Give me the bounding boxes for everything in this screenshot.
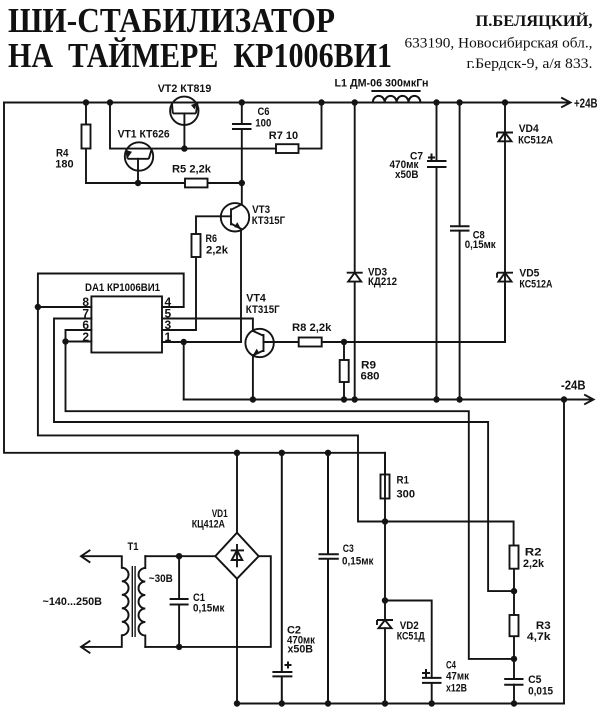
svg-text:х50В: х50В xyxy=(395,169,419,181)
svg-text:DA1 КР1006ВИ1: DA1 КР1006ВИ1 xyxy=(85,282,160,294)
svg-text:1: 1 xyxy=(165,330,172,344)
svg-text:VT2 КТ819: VT2 КТ819 xyxy=(158,83,212,95)
svg-text:L1 ДМ-06 300мкГн: L1 ДМ-06 300мкГн xyxy=(335,78,429,90)
svg-text:КД212: КД212 xyxy=(368,276,397,288)
svg-text:КС512А: КС512А xyxy=(518,135,553,147)
svg-text:T1: T1 xyxy=(128,541,139,553)
svg-text:R8 2,2k: R8 2,2k xyxy=(292,322,332,334)
svg-text:VT1 КТ626: VT1 КТ626 xyxy=(118,129,170,141)
svg-text:КС512А: КС512А xyxy=(519,279,552,291)
svg-text:-24В: -24В xyxy=(561,378,586,393)
svg-text:0,015: 0,015 xyxy=(528,686,553,698)
svg-text:R1: R1 xyxy=(397,475,410,487)
svg-text:КЦ412А: КЦ412А xyxy=(192,519,225,531)
svg-text:680: 680 xyxy=(361,371,380,383)
svg-text:2: 2 xyxy=(82,330,89,344)
svg-text:х12В: х12В xyxy=(446,683,467,695)
svg-text:4,7k: 4,7k xyxy=(527,631,552,643)
svg-text:47мк: 47мк xyxy=(446,671,469,683)
svg-text:C3: C3 xyxy=(343,543,354,555)
svg-text:R7 10: R7 10 xyxy=(269,130,298,142)
svg-text:КС51Д: КС51Д xyxy=(397,631,425,643)
svg-text:~140...250В: ~140...250В xyxy=(43,596,103,608)
svg-text:2,2k: 2,2k xyxy=(523,558,545,570)
svg-text:R2: R2 xyxy=(525,547,542,559)
svg-text:ШИ-СТАБИЛИЗАТОР: ШИ-СТАБИЛИЗАТОР xyxy=(8,1,335,40)
svg-text:0,15мк: 0,15мк xyxy=(193,603,225,615)
svg-text:180: 180 xyxy=(55,159,73,171)
svg-text:R6: R6 xyxy=(206,233,218,245)
svg-text:100: 100 xyxy=(255,118,271,130)
svg-text:300: 300 xyxy=(397,489,416,501)
svg-text:0,15мк: 0,15мк xyxy=(465,239,496,251)
svg-text:~30В: ~30В xyxy=(149,573,173,585)
svg-text:C6: C6 xyxy=(258,106,270,118)
svg-text:КТ315Г: КТ315Г xyxy=(252,215,286,227)
svg-text:R5 2,2k: R5 2,2k xyxy=(172,164,212,176)
svg-text:КТ315Г: КТ315Г xyxy=(246,304,280,316)
svg-text:+24В: +24В xyxy=(574,96,598,111)
svg-text:НА ТАЙМЕРЕ КР1006ВИ1: НА ТАЙМЕРЕ КР1006ВИ1 xyxy=(8,36,392,75)
svg-text:х50В: х50В xyxy=(288,644,314,656)
svg-text:2,2k: 2,2k xyxy=(206,245,229,257)
svg-text:VT4: VT4 xyxy=(246,293,266,305)
svg-text:г.Бердск-9, а/я 833.: г.Бердск-9, а/я 833. xyxy=(467,56,593,72)
svg-text:П.БЕЛЯЦКИЙ,: П.БЕЛЯЦКИЙ, xyxy=(476,11,593,30)
svg-text:633190, Новосибирская обл.,: 633190, Новосибирская обл., xyxy=(405,36,593,52)
svg-text:C5: C5 xyxy=(528,674,541,686)
svg-text:VD4: VD4 xyxy=(519,123,540,135)
svg-text:0,15мк: 0,15мк xyxy=(342,556,374,568)
